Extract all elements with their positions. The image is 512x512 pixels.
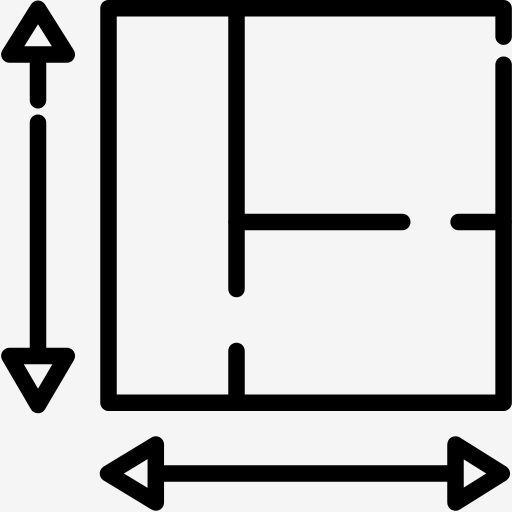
vertical measure arrow: down arrowhead (9, 356, 66, 405)
interior wall vertical lower segment (228, 351, 245, 403)
interior wall horizontal left segment (237, 214, 403, 231)
floor-plan square outline (gap in right edge near top) (109, 8, 504, 402)
vertical measure arrow: shaft lower segment (30, 123, 47, 352)
horizontal measure arrow: left arrowhead (108, 445, 156, 503)
horizontal measure arrow: right arrowhead (456, 445, 502, 503)
interior wall vertical upper segment (228, 8, 245, 289)
horizontal measure arrow: shaft (158, 465, 454, 482)
vertical measure arrow: shaft upper segment (30, 58, 47, 100)
vertical measure arrow: up arrowhead (9, 9, 66, 55)
interior wall horizontal right segment (459, 214, 504, 231)
